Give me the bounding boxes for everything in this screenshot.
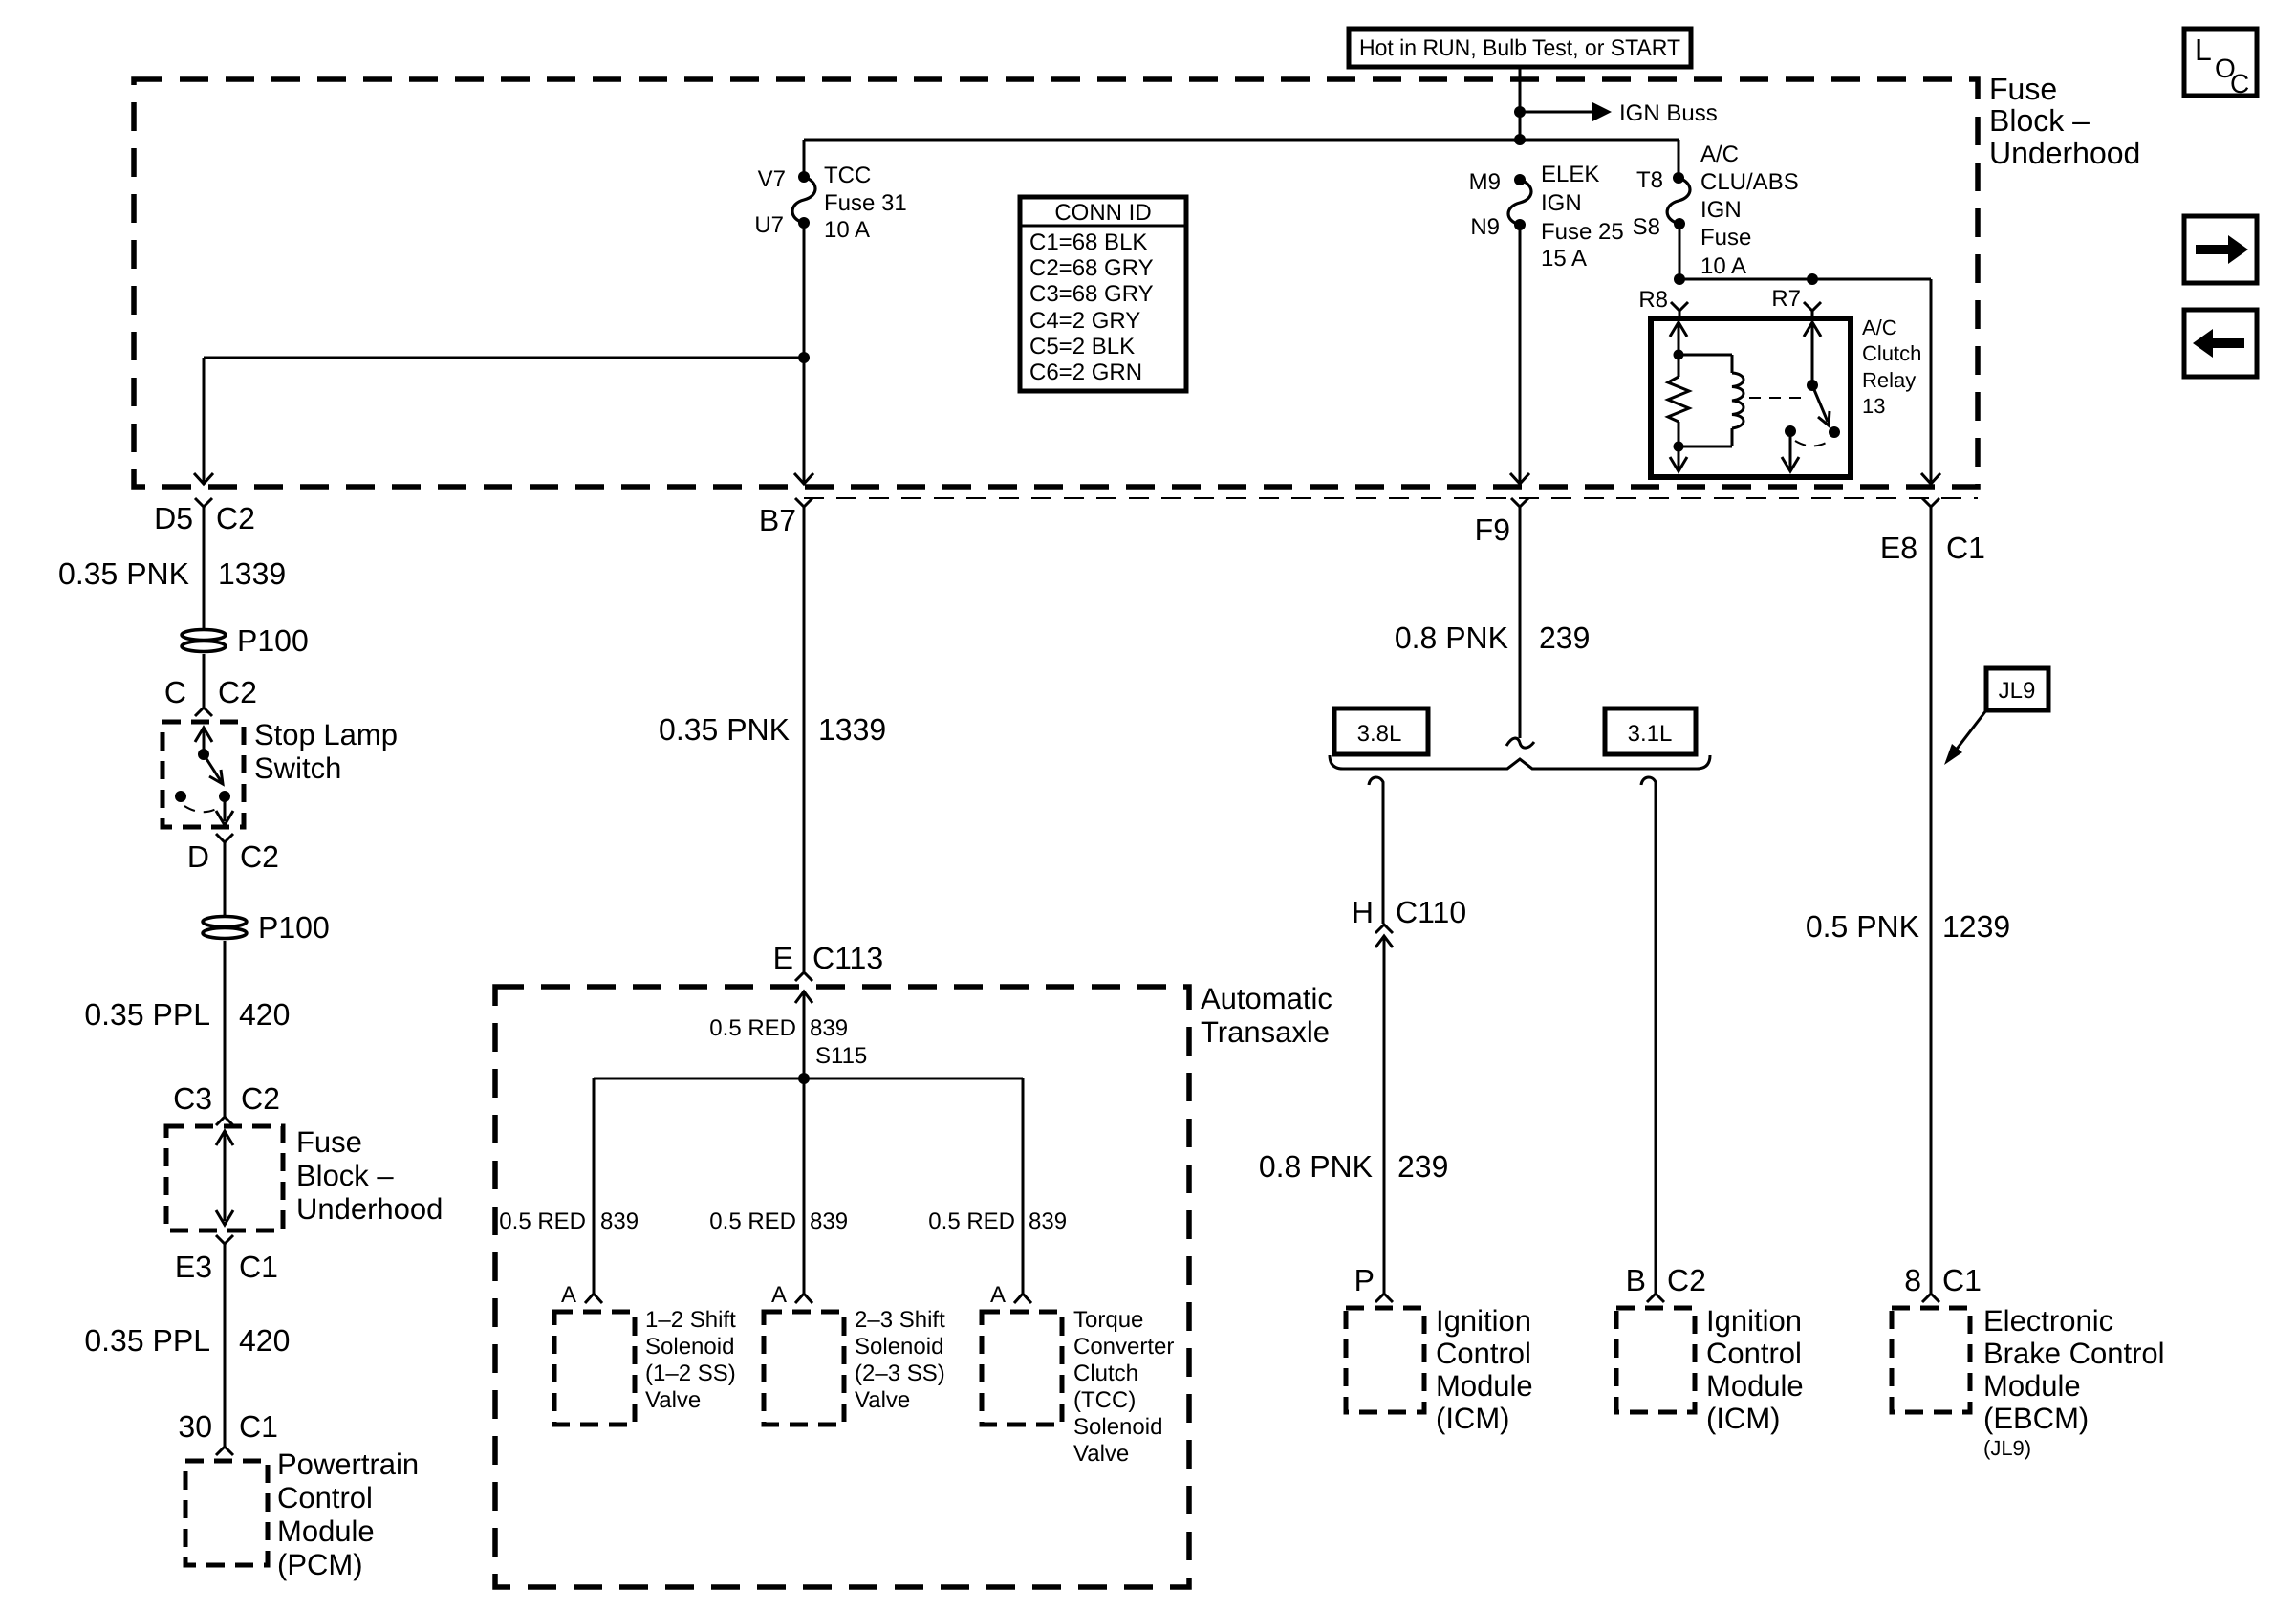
svg-text:Clutch: Clutch <box>1862 341 1921 365</box>
harness thin dashed line <box>804 497 1978 499</box>
svg-text:3.8L: 3.8L <box>1357 721 1402 747</box>
connector D C2 <box>187 834 279 917</box>
TCC solenoid label <box>1073 1307 1174 1467</box>
svg-text:0.8 PNK: 0.8 PNK <box>1259 1149 1373 1184</box>
svg-text:1239: 1239 <box>1942 909 2010 944</box>
wire horizontal feed at y146 <box>804 139 1679 142</box>
svg-text:P: P <box>1354 1263 1375 1297</box>
svg-text:Module: Module <box>1436 1369 1533 1403</box>
svg-text:CONN ID: CONN ID <box>1054 200 1151 226</box>
wire B7 branch down <box>803 358 806 483</box>
wire label 0.5 PNK 1239 <box>1806 909 2010 944</box>
stop lamp switch box <box>162 722 244 827</box>
svg-text:H: H <box>1352 895 1374 929</box>
svg-text:0.5 PNK: 0.5 PNK <box>1806 909 1919 944</box>
pin 8 C1 of EBCM <box>1904 1263 1982 1302</box>
wire label 0.8 PNK 239 lower <box>1259 1149 1449 1184</box>
svg-text:S115: S115 <box>815 1043 867 1069</box>
fuse block underhood small dashed box <box>166 1126 283 1230</box>
svg-text:Ignition: Ignition <box>1706 1304 1802 1338</box>
svg-text:Valve: Valve <box>855 1387 910 1413</box>
electronic brake control module label <box>1983 1304 2165 1460</box>
fuse block underhood dashed box <box>134 79 1978 487</box>
svg-text:E8: E8 <box>1880 531 1917 565</box>
wire P100 to C3 <box>224 941 227 1116</box>
svg-text:Powertrain: Powertrain <box>277 1448 419 1481</box>
svg-text:10 A: 10 A <box>1700 253 1746 279</box>
right arrow box <box>2184 216 2257 283</box>
svg-text:C1: C1 <box>239 1409 278 1444</box>
svg-text:C2: C2 <box>218 675 257 709</box>
A/C CLU/ABS IGN fuse <box>1633 140 1799 279</box>
svg-text:Relay: Relay <box>1862 368 1916 392</box>
svg-text:Fuse: Fuse <box>296 1125 362 1159</box>
svg-text:Valve: Valve <box>645 1387 701 1413</box>
pin B C2 of ICM <box>1626 1263 1706 1302</box>
svg-text:CLU/ABS: CLU/ABS <box>1700 169 1799 195</box>
svg-text:Underhood: Underhood <box>296 1192 443 1226</box>
svg-text:IGN Buss: IGN Buss <box>1619 100 1718 126</box>
connector B7 <box>759 498 812 971</box>
svg-text:839: 839 <box>600 1208 639 1234</box>
svg-text:C: C <box>2230 69 2249 98</box>
svg-text:Automatic: Automatic <box>1201 982 1332 1015</box>
svg-text:Solenoid: Solenoid <box>1073 1414 1162 1440</box>
svg-text:0.35 PNK: 0.35 PNK <box>58 556 189 591</box>
wire from hot box down <box>1519 67 1522 140</box>
svg-text:Brake Control: Brake Control <box>1983 1337 2165 1370</box>
svg-text:V7: V7 <box>758 166 786 192</box>
left arrow box <box>2184 310 2257 377</box>
3.1L drop wire <box>1641 777 1656 1293</box>
svg-text:B: B <box>1626 1263 1646 1297</box>
wire R8 to E8 corner <box>1679 278 1931 281</box>
svg-text:ELEK: ELEK <box>1541 162 1599 187</box>
svg-text:JL9: JL9 <box>1999 678 2036 704</box>
svg-text:L: L <box>2195 33 2212 67</box>
svg-text:Transaxle: Transaxle <box>1201 1015 1330 1049</box>
svg-text:E3: E3 <box>175 1250 212 1284</box>
svg-text:C1=68 BLK: C1=68 BLK <box>1029 229 1147 255</box>
stop lamp switch symbol <box>175 728 233 825</box>
relay label <box>1862 316 1921 418</box>
wire label 0.35 PNK 1339 middle <box>659 712 886 747</box>
svg-text:Fuse: Fuse <box>1700 225 1751 250</box>
wire E8 drop <box>1930 279 1933 483</box>
pin A of 1-2 solenoid <box>561 1282 602 1308</box>
svg-text:(JL9): (JL9) <box>1983 1436 2031 1460</box>
inline connector P100 lower <box>203 910 330 945</box>
powertrain control module box <box>185 1461 268 1565</box>
LOC box <box>2184 29 2257 98</box>
ELEK IGN fuse 25 <box>1469 162 1624 272</box>
svg-text:C2=68 GRY: C2=68 GRY <box>1029 255 1154 281</box>
svg-text:C113: C113 <box>812 941 883 975</box>
stop lamp switch label <box>254 718 398 785</box>
splice S115 <box>594 1043 1023 1084</box>
fuse block underhood small label <box>296 1125 443 1226</box>
svg-text:C3=68 GRY: C3=68 GRY <box>1029 281 1154 307</box>
svg-text:Clutch: Clutch <box>1073 1361 1138 1386</box>
svg-text:13: 13 <box>1862 394 1885 418</box>
svg-text:C1: C1 <box>1946 531 1985 565</box>
svg-text:R8: R8 <box>1638 287 1668 313</box>
svg-text:Converter: Converter <box>1073 1334 1174 1360</box>
svg-text:U7: U7 <box>754 212 784 238</box>
svg-text:0.35 PNK: 0.35 PNK <box>659 712 790 747</box>
connector E8 C1 <box>1880 498 1985 1293</box>
fuse block pass-through arrows <box>216 1131 233 1225</box>
svg-text:Solenoid: Solenoid <box>855 1334 943 1360</box>
svg-text:IGN: IGN <box>1700 197 1742 223</box>
svg-text:239: 239 <box>1397 1149 1448 1184</box>
svg-text:A/C: A/C <box>1700 142 1739 167</box>
svg-text:420: 420 <box>239 1323 290 1358</box>
relay mechanical link <box>1749 397 1806 399</box>
2-3 shift solenoid box <box>764 1312 844 1425</box>
svg-text:S8: S8 <box>1633 214 1660 240</box>
svg-text:R7: R7 <box>1771 286 1801 312</box>
svg-text:839: 839 <box>810 1208 848 1234</box>
A/C clutch relay box <box>1651 318 1851 477</box>
automatic transaxle dashed box <box>495 987 1189 1587</box>
wire label 0.8 PNK 239 upper <box>1395 620 1591 655</box>
svg-text:Solenoid: Solenoid <box>645 1334 734 1360</box>
svg-text:T8: T8 <box>1636 167 1663 193</box>
3.1L tag box <box>1605 708 1696 754</box>
fuse block underhood label <box>1989 72 2140 170</box>
inline connector P100 <box>182 623 309 658</box>
wire horizontal to left branch <box>204 357 804 359</box>
svg-text:Block –: Block – <box>296 1159 394 1192</box>
svg-text:D: D <box>187 839 209 874</box>
ignition control module box 3.1L <box>1616 1308 1695 1412</box>
svg-text:3.1L: 3.1L <box>1628 721 1673 747</box>
ignition control module label 3.8L <box>1436 1304 1533 1435</box>
wire drop TCC solenoid <box>1022 1078 1025 1293</box>
svg-text:C3: C3 <box>173 1081 212 1116</box>
svg-text:Hot in RUN, Bulb Test, or STAR: Hot in RUN, Bulb Test, or START <box>1359 35 1680 61</box>
svg-text:Stop Lamp: Stop Lamp <box>254 718 398 751</box>
svg-text:M9: M9 <box>1469 169 1501 195</box>
electronic brake control module box <box>1892 1308 1970 1412</box>
svg-text:(EBCM): (EBCM) <box>1983 1402 2089 1435</box>
svg-text:10 A: 10 A <box>824 217 870 243</box>
connector H C110 <box>1352 895 1466 929</box>
svg-text:N9: N9 <box>1470 214 1500 240</box>
svg-text:A/C: A/C <box>1862 316 1897 339</box>
svg-text:1339: 1339 <box>818 712 886 747</box>
JL9 option tag <box>1944 668 2048 765</box>
2-3 shift solenoid label <box>855 1307 945 1413</box>
svg-text:2–3 Shift: 2–3 Shift <box>855 1307 945 1333</box>
wire fuse to R8 node <box>1679 224 1681 279</box>
svg-text:0.5 RED: 0.5 RED <box>928 1208 1015 1234</box>
node R8 <box>1674 273 1685 285</box>
svg-text:Switch: Switch <box>254 751 341 785</box>
svg-text:0.8 PNK: 0.8 PNK <box>1395 620 1508 655</box>
3.8L tag box <box>1334 708 1428 754</box>
hot in run label box <box>1349 29 1691 67</box>
svg-text:420: 420 <box>239 997 290 1032</box>
connector D5 C2 <box>154 498 255 630</box>
TCC solenoid box <box>982 1312 1062 1425</box>
svg-text:C2: C2 <box>240 839 279 874</box>
automatic transaxle label <box>1201 982 1332 1049</box>
svg-text:C: C <box>164 675 186 709</box>
pin P of ICM <box>1354 1263 1393 1302</box>
svg-text:C6=2 GRN: C6=2 GRN <box>1029 359 1142 385</box>
svg-text:C2: C2 <box>216 501 255 535</box>
svg-text:1–2 Shift: 1–2 Shift <box>645 1307 736 1333</box>
svg-text:C110: C110 <box>1396 895 1466 929</box>
svg-text:P100: P100 <box>237 623 309 658</box>
wire P100 to C <box>203 654 206 707</box>
svg-text:A: A <box>990 1282 1006 1308</box>
svg-text:C5=2 BLK: C5=2 BLK <box>1029 334 1135 359</box>
svg-text:30: 30 <box>178 1409 212 1444</box>
svg-text:Fuse: Fuse <box>1989 72 2057 106</box>
svg-text:(1–2 SS): (1–2 SS) <box>645 1361 736 1386</box>
svg-text:Ignition: Ignition <box>1436 1304 1531 1338</box>
connector C C2 <box>164 675 257 716</box>
wire drop 1-2 solenoid <box>593 1078 596 1293</box>
svg-text:(ICM): (ICM) <box>1706 1402 1780 1435</box>
svg-text:Module: Module <box>1706 1369 1804 1403</box>
relay switch branch <box>1782 322 1840 471</box>
svg-text:D5: D5 <box>154 501 193 535</box>
wire drop 2-3 solenoid <box>803 1078 806 1293</box>
connector C3 C2 <box>173 1081 280 1125</box>
node R7 <box>1807 273 1818 285</box>
svg-text:Torque: Torque <box>1073 1307 1143 1333</box>
svg-text:0.5 RED: 0.5 RED <box>499 1208 586 1234</box>
svg-text:Fuse 25: Fuse 25 <box>1541 219 1624 245</box>
powertrain control module label <box>277 1448 419 1581</box>
wire TCC down to junction <box>803 223 806 358</box>
connector E3 C1 <box>175 1235 278 1446</box>
svg-text:A: A <box>561 1282 576 1308</box>
ignition control module label 3.1L <box>1706 1304 1804 1435</box>
svg-text:8: 8 <box>1904 1263 1921 1297</box>
svg-text:C4=2 GRY: C4=2 GRY <box>1029 308 1140 334</box>
connector E C113 <box>773 941 883 1078</box>
pin A of TCC solenoid <box>990 1282 1031 1308</box>
svg-text:A: A <box>771 1282 787 1308</box>
R8 pin connector <box>1638 287 1688 318</box>
svg-text:(PCM): (PCM) <box>277 1548 363 1581</box>
svg-text:IGN: IGN <box>1541 190 1582 216</box>
svg-text:Module: Module <box>1983 1369 2081 1403</box>
relay coil branch <box>1668 322 1732 471</box>
svg-text:(2–3 SS): (2–3 SS) <box>855 1361 945 1386</box>
svg-text:Block –: Block – <box>1989 103 2090 138</box>
3.8L drop wire <box>1369 777 1393 1293</box>
svg-text:E: E <box>773 941 793 975</box>
pin A of 2-3 solenoid <box>771 1282 812 1308</box>
svg-text:(TCC): (TCC) <box>1073 1387 1136 1413</box>
svg-text:Module: Module <box>277 1514 375 1548</box>
svg-text:Control: Control <box>277 1481 373 1514</box>
TCC fuse 31 <box>754 140 906 243</box>
svg-text:C1: C1 <box>1942 1263 1982 1297</box>
svg-text:0.5 RED: 0.5 RED <box>709 1015 796 1041</box>
relay coil <box>1732 355 1744 446</box>
R7 pin connector <box>1771 286 1821 318</box>
wire labels 0.5 RED 839 row <box>499 1208 1067 1234</box>
svg-text:Valve: Valve <box>1073 1441 1129 1467</box>
svg-text:P100: P100 <box>258 910 330 945</box>
svg-text:839: 839 <box>810 1015 848 1041</box>
wire label 0.5 RED 839 top <box>709 1015 848 1041</box>
connector F9 <box>1475 498 1534 748</box>
wire label 0.35 PNK 1339 <box>58 556 286 591</box>
svg-text:0.35 PPL: 0.35 PPL <box>84 1323 210 1358</box>
svg-text:239: 239 <box>1539 620 1590 655</box>
svg-text:C2: C2 <box>241 1081 280 1116</box>
svg-text:F9: F9 <box>1475 512 1510 547</box>
svg-text:15 A: 15 A <box>1541 246 1587 272</box>
svg-text:0.5 RED: 0.5 RED <box>709 1208 796 1234</box>
wire F9 down <box>1519 225 1522 483</box>
svg-text:B7: B7 <box>759 503 796 537</box>
1-2 shift solenoid label <box>645 1307 736 1413</box>
svg-text:TCC: TCC <box>824 163 871 188</box>
IGN buss tap <box>1514 100 1718 126</box>
wire label 0.35 PPL 420 upper <box>84 997 290 1032</box>
wire left branch down <box>203 358 206 483</box>
svg-text:Control: Control <box>1436 1337 1531 1370</box>
svg-text:C1: C1 <box>239 1250 278 1284</box>
pin 30 C1 <box>178 1409 278 1455</box>
wire label 0.35 PPL 420 lower <box>84 1323 290 1358</box>
svg-text:1339: 1339 <box>218 556 286 591</box>
CONN ID table <box>1020 197 1186 391</box>
svg-text:839: 839 <box>1029 1208 1067 1234</box>
svg-text:0.35 PPL: 0.35 PPL <box>84 997 210 1032</box>
svg-text:Electronic: Electronic <box>1983 1304 2113 1338</box>
ignition control module box 3.8L <box>1346 1308 1424 1412</box>
svg-text:Control: Control <box>1706 1337 1802 1370</box>
svg-text:C2: C2 <box>1667 1263 1706 1297</box>
junction node <box>798 352 810 363</box>
engine split brace <box>1330 755 1710 769</box>
svg-text:Underhood: Underhood <box>1989 136 2140 170</box>
svg-text:Fuse 31: Fuse 31 <box>824 190 907 216</box>
svg-text:(ICM): (ICM) <box>1436 1402 1509 1435</box>
1-2 shift solenoid box <box>554 1312 635 1425</box>
